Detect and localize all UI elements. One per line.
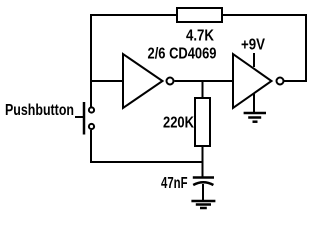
svg-text:2/6 CD4069: 2/6 CD4069 xyxy=(148,46,217,63)
pushbutton SW1 top contact xyxy=(89,107,94,112)
wire top-right segment xyxy=(222,14,306,16)
capacitor C1 top plate xyxy=(193,176,214,179)
wire right vertical xyxy=(305,14,307,81)
svg-text:220K: 220K xyxy=(163,115,194,132)
resistor R2 body xyxy=(195,98,210,146)
wire top-left segment xyxy=(91,14,177,16)
op-amp U1B inverter triangle xyxy=(233,54,272,108)
wire C1 bottom lead xyxy=(202,184,204,200)
pushbutton SW1 bottom contact xyxy=(89,124,94,129)
wire bottom xyxy=(90,161,203,163)
capacitor C1 bottom plate (curved) xyxy=(193,182,213,185)
op-amp U1A inverter triangle xyxy=(123,54,163,108)
pushbutton SW1 actuator bar xyxy=(83,102,86,135)
ground under U1B xyxy=(244,112,266,115)
svg-text:Pushbutton: Pushbutton xyxy=(5,102,74,119)
svg-text:4.7K: 4.7K xyxy=(186,28,214,45)
U1A output bubble xyxy=(167,78,174,85)
svg-text:+9V: +9V xyxy=(241,37,265,54)
wire R2 bottom lead xyxy=(202,146,204,177)
wire U1A output to U1B input xyxy=(175,80,234,82)
wire U1A input xyxy=(90,80,123,82)
U1B ground pin xyxy=(253,94,255,112)
U1B output bubble xyxy=(277,78,284,85)
wire left vertical upper xyxy=(90,14,92,107)
U1B power pin xyxy=(253,53,255,67)
ground under C1 xyxy=(191,200,215,203)
wire node between U1A output and R2 xyxy=(202,81,204,98)
wire U1B output to right vertical xyxy=(284,80,307,82)
wire left vertical lower xyxy=(90,130,92,163)
resistor R1 body xyxy=(177,8,222,22)
pushbutton SW1 actuator lead xyxy=(75,116,83,118)
svg-text:47nF: 47nF xyxy=(161,175,188,192)
